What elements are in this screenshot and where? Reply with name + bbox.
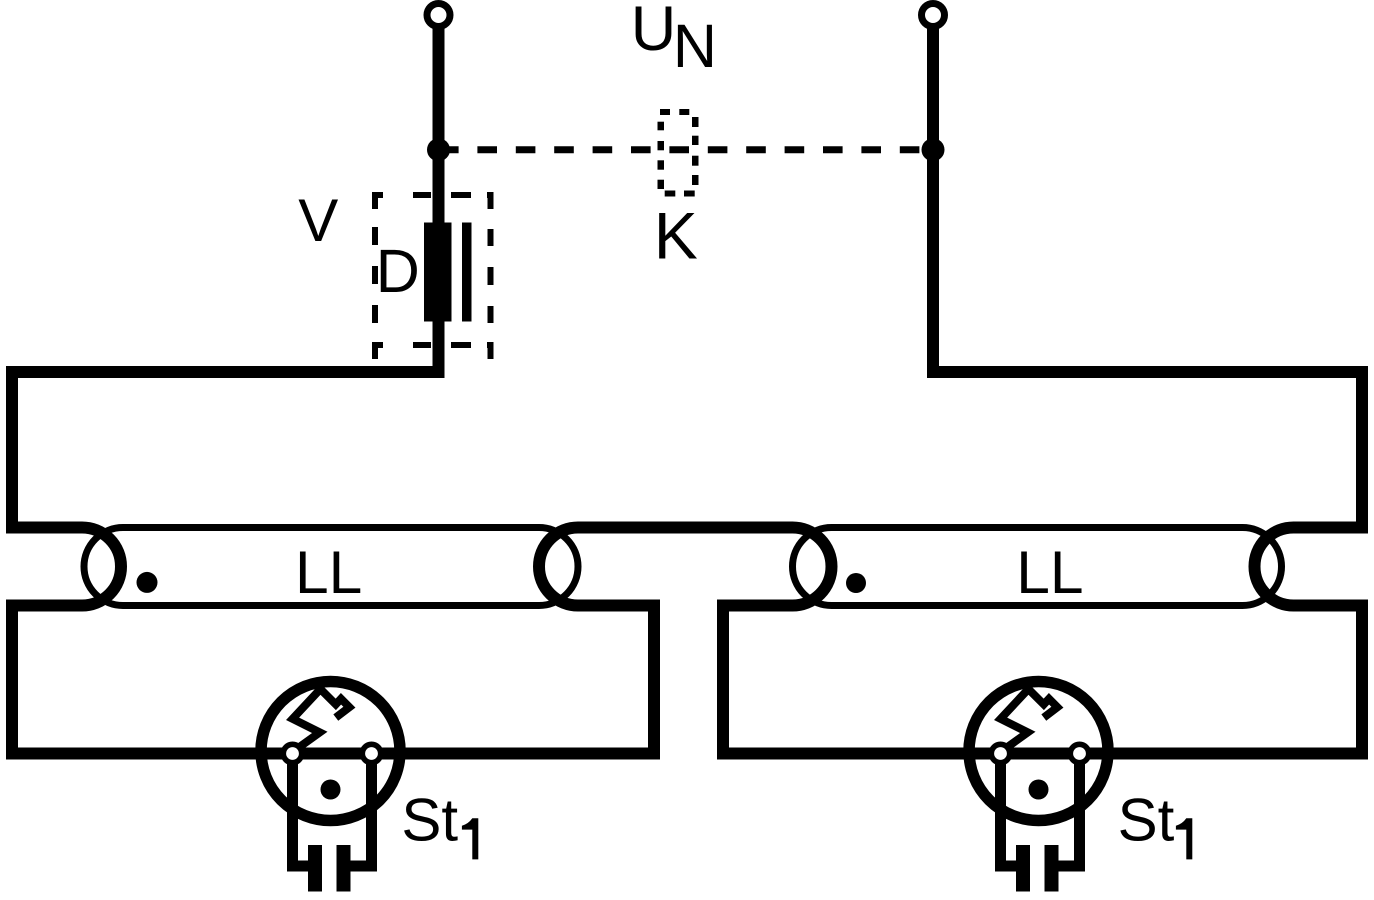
svg-text:LL: LL: [295, 538, 362, 606]
svg-text:K: K: [654, 198, 698, 272]
svg-text:D: D: [376, 237, 420, 305]
svg-text:St: St: [401, 787, 458, 854]
svg-text:V: V: [298, 187, 338, 254]
svg-text:N: N: [673, 12, 717, 80]
svg-text:LL: LL: [1016, 538, 1083, 606]
svg-text:St: St: [1118, 787, 1175, 854]
svg-text:U: U: [631, 0, 677, 64]
